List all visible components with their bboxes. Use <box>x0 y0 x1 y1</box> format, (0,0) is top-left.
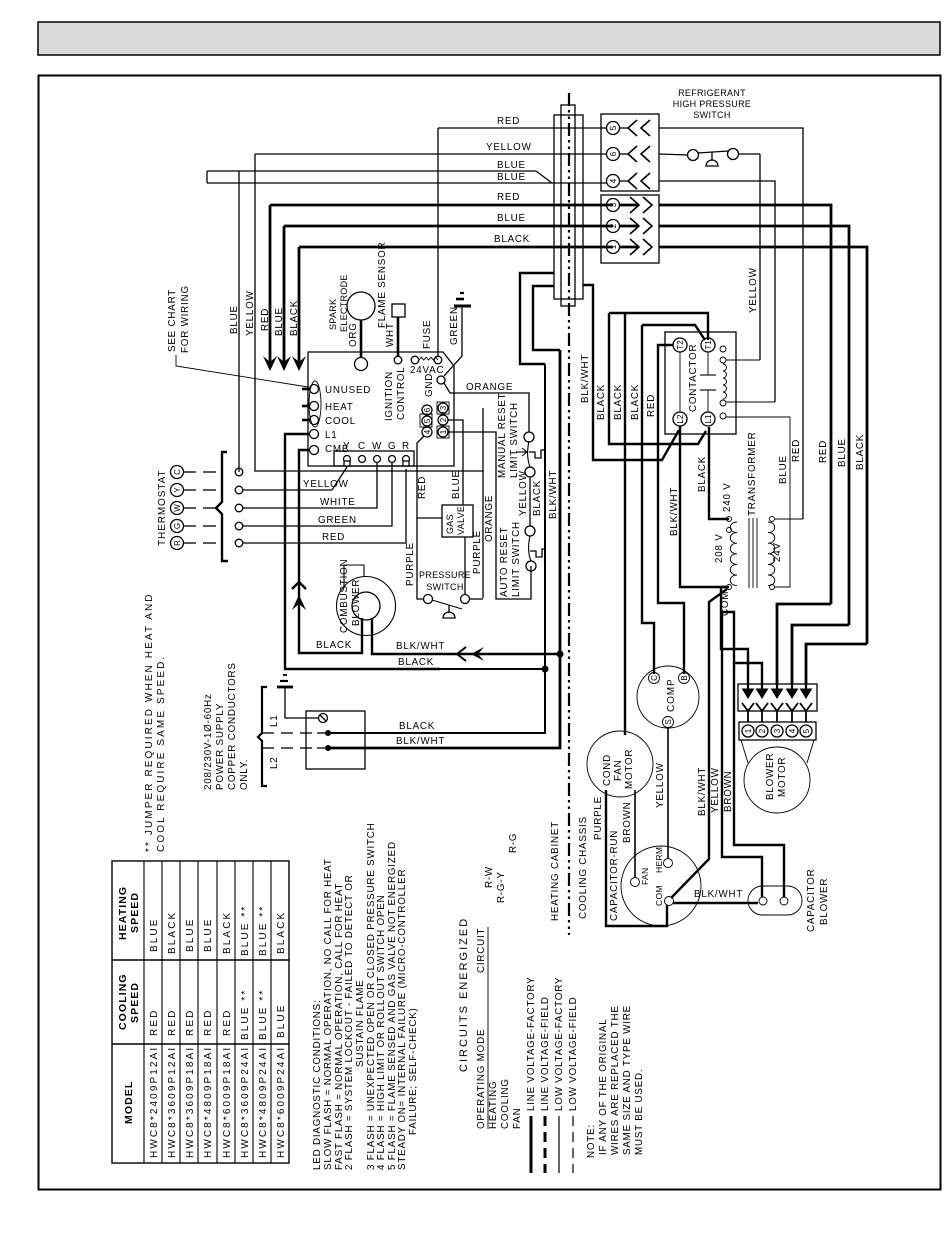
black supply wire <box>328 364 545 733</box>
black arrow down <box>298 247 301 366</box>
black wire junction to trunk <box>440 668 545 670</box>
terminal T2 <box>673 338 687 352</box>
green wire to G <box>243 463 392 526</box>
legend line voltage field <box>544 1116 547 1173</box>
svg-text:R-G-Y: R-G-Y <box>496 871 507 903</box>
svg-text:RED: RED <box>646 394 657 417</box>
svg-text:BLACK: BLACK <box>596 384 607 420</box>
capacitor blower oval <box>748 886 802 915</box>
combustion blower scroll <box>337 577 396 636</box>
svg-text:5: 5 <box>609 125 618 130</box>
svg-text:HWC8*4809P24AI: HWC8*4809P24AI <box>258 1046 269 1158</box>
svg-text:HEATING CABINET: HEATING CABINET <box>550 821 561 921</box>
svg-text:BLUE: BLUE <box>778 455 789 484</box>
terminal L1 <box>701 412 715 426</box>
svg-text:PRESSURE: PRESSURE <box>419 570 471 580</box>
svg-text:GAS: GAS <box>445 514 455 534</box>
svg-text:SLOW FLASH = NORMAL OPERATION,: SLOW FLASH = NORMAL OPERATION, NO CALL F… <box>323 858 334 1170</box>
red wire to R <box>243 469 406 543</box>
svg-text:BLACK: BLACK <box>855 434 866 470</box>
purple wire gas valve area to pressure switch left <box>417 518 424 599</box>
svg-text:REFRIGERANT: REFRIGERANT <box>678 88 746 98</box>
svg-text:COND: COND <box>602 754 613 786</box>
svg-text:BLUE: BLUE <box>276 1003 287 1038</box>
power supply brace <box>258 687 267 786</box>
svg-text:LINE VOLTAGE-FIELD: LINE VOLTAGE-FIELD <box>540 996 551 1111</box>
svg-text:RED: RED <box>167 1009 178 1036</box>
field dashes L2 <box>262 747 274 749</box>
connector block upper (pins 5,6,4) <box>601 114 659 191</box>
L1 screw terminal <box>319 714 328 723</box>
svg-text:WHT: WHT <box>385 322 396 347</box>
svg-text:MODEL: MODEL <box>123 1081 135 1124</box>
svg-text:4: 4 <box>423 429 432 434</box>
coil chain <box>720 346 726 352</box>
svg-text:BLACK: BLACK <box>494 234 530 245</box>
svg-text:BLACK: BLACK <box>222 911 233 954</box>
svg-text:R-W: R-W <box>484 866 495 888</box>
G terminal <box>389 456 396 463</box>
Y C W G R terminal strip <box>334 451 414 466</box>
refrigerant high pressure switch symbol <box>659 154 688 155</box>
L1 wire black from ignition to power area <box>285 434 440 669</box>
svg-text:L1: L1 <box>325 430 338 441</box>
brown wire to capacitor blower right <box>734 663 784 897</box>
field wiring dashes <box>184 471 196 473</box>
svg-text:2: 2 <box>439 417 448 422</box>
cap COM terminal <box>665 897 674 906</box>
gas valve box <box>442 505 473 537</box>
svg-text:B: B <box>680 675 689 680</box>
svg-text:BLK/WHT: BLK/WHT <box>580 354 591 403</box>
field splice chevrons on blk/wht <box>457 647 466 661</box>
thermostat terminal G <box>171 520 184 533</box>
svg-text:SPARK: SPARK <box>328 299 338 330</box>
svg-text:SAME SIZE AND TYPE WIRE: SAME SIZE AND TYPE WIRE <box>622 1005 633 1155</box>
wire RED pin5 <box>438 127 607 129</box>
svg-text:RED: RED <box>185 1009 196 1036</box>
svg-text:YELLOW: YELLOW <box>486 142 532 153</box>
svg-text:CIRCUITS ENERGIZED: CIRCUITS ENERGIZED <box>458 917 470 1072</box>
svg-text:FUSE: FUSE <box>422 320 433 349</box>
wire pin2 BLUE thick trunk <box>659 226 849 625</box>
svg-text:BLUE: BLUE <box>497 172 526 183</box>
thermostat brace <box>216 452 228 561</box>
jumper ellipse around unused/heat/cool <box>309 381 321 427</box>
svg-text:FAN: FAN <box>640 868 650 885</box>
svg-text:GREEN: GREEN <box>318 515 357 526</box>
svg-text:BROWN: BROWN <box>622 801 633 843</box>
svg-text:NOTE:: NOTE: <box>586 1124 597 1158</box>
svg-text:W: W <box>372 441 382 452</box>
svg-text:** JUMPER REQUIRED WHEN HEAT A: ** JUMPER REQUIRED WHEN HEAT AND <box>144 592 155 852</box>
blue wire coil to 24v secondary <box>726 417 790 587</box>
wire pin5 RED right and down to transformer <box>659 128 803 519</box>
svg-text:2 FLASH = SYSTEM LOCKOUT - FAI: 2 FLASH = SYSTEM LOCKOUT - FAILED TO DET… <box>344 875 355 1170</box>
green ground symbol <box>454 305 471 308</box>
orange wire pin1 to auto reset <box>448 432 531 599</box>
svg-text:LOW VOLTAGE-FIELD: LOW VOLTAGE-FIELD <box>568 997 579 1112</box>
thermostat terminal W <box>171 502 184 515</box>
svg-text:HWC8*6009P18AI: HWC8*6009P18AI <box>222 1046 233 1158</box>
blue wire pin4 into coil <box>726 401 775 403</box>
svg-text:BLACK: BLACK <box>316 640 352 651</box>
svg-text:BLUE: BLUE <box>497 213 526 224</box>
white wire to W <box>243 463 377 508</box>
svg-text:24V: 24V <box>772 542 783 562</box>
svg-text:COOL REQUIRE SAME SPEED.: COOL REQUIRE SAME SPEED. <box>156 655 167 852</box>
svg-text:BLACK: BLACK <box>276 911 287 954</box>
svg-text:C: C <box>650 675 659 681</box>
svg-text:BLUE: BLUE <box>837 438 848 467</box>
blk/wht wire from blower right to trunk <box>372 618 560 654</box>
wire pin1 BLACK thick trunk <box>659 247 867 644</box>
svg-text:FAN: FAN <box>613 760 624 781</box>
svg-text:BLUE **: BLUE ** <box>258 989 269 1040</box>
red arrow down <box>269 205 272 366</box>
transformer secondary winding <box>768 522 775 586</box>
purple wire gas valve bottom to pressure switch right <box>464 537 466 595</box>
see chart leader line <box>176 355 308 387</box>
auto reset limit switch <box>525 526 535 536</box>
svg-text:BLK/WHT: BLK/WHT <box>548 470 559 519</box>
svg-text:C: C <box>358 441 366 452</box>
blue arrow down <box>283 226 286 366</box>
right connector pins 6 5 4 <box>420 414 432 427</box>
wire BLUE lower <box>207 182 607 184</box>
svg-text:BLUE: BLUE <box>185 917 196 952</box>
comp terminal C <box>649 673 660 684</box>
ground wire to L1 screw <box>285 687 318 718</box>
svg-text:BLK/WHT: BLK/WHT <box>396 641 445 652</box>
bulkhead plug outer rect <box>554 115 583 299</box>
right connector pins 3 2 1 <box>437 402 449 414</box>
svg-text:YELLOW: YELLOW <box>303 479 349 490</box>
svg-text:PURPLE: PURPLE <box>593 796 604 840</box>
wire blue down to thermostat C <box>238 171 240 472</box>
svg-text:T1: T1 <box>704 340 713 350</box>
comp terminal R <box>679 673 690 684</box>
svg-text:CIRCUIT: CIRCUIT <box>476 928 487 973</box>
bulkhead plug inner rect <box>561 105 575 306</box>
ground symbol <box>277 686 293 689</box>
unit terminal G <box>235 522 243 530</box>
wire RED pin3 thick <box>270 204 613 207</box>
svg-text:S: S <box>664 719 673 724</box>
svg-text:W: W <box>173 504 182 512</box>
svg-text:TRANSFORMER: TRANSFORMER <box>747 432 758 516</box>
up arrow on CMB wire <box>292 595 306 610</box>
transformer core <box>748 518 750 588</box>
svg-text:RED: RED <box>203 1009 214 1036</box>
svg-text:L1: L1 <box>704 414 713 423</box>
svg-text:RED: RED <box>818 440 829 463</box>
svg-text:YELLOW: YELLOW <box>710 767 721 813</box>
yellow wire S to herm <box>667 728 669 858</box>
svg-text:WIRES ARE REPLACED THE: WIRES ARE REPLACED THE <box>610 1005 621 1155</box>
svg-text:ONLY.: ONLY. <box>239 759 250 790</box>
svg-text:BLUE: BLUE <box>203 917 214 952</box>
svg-text:HWC8*2409P12AI: HWC8*2409P12AI <box>149 1046 160 1158</box>
svg-text:COM: COM <box>654 885 664 906</box>
ORG wire <box>360 320 363 357</box>
blkwht L2 to com <box>680 426 727 587</box>
terminal T1 <box>701 338 715 352</box>
model speed table frame <box>112 861 289 1163</box>
svg-text:5: 5 <box>802 728 811 733</box>
thermostat terminal R <box>171 537 184 550</box>
ORG terminal <box>355 358 368 371</box>
svg-text:LOW VOLTAGE-FACTORY: LOW VOLTAGE-FACTORY <box>554 977 565 1111</box>
wire BLUE upper <box>207 170 536 172</box>
receptacle chevrons <box>742 703 754 722</box>
svg-text:HWC8*6009P24AI: HWC8*6009P24AI <box>276 1046 287 1158</box>
compressor circle <box>637 666 699 728</box>
svg-text:R: R <box>402 441 410 452</box>
secondary terminals <box>770 517 775 522</box>
orange wire gnd to manual reset switch <box>444 383 529 432</box>
chevrons pins 5,6,4 pointing left <box>628 120 652 255</box>
svg-text:HWC8*3609P12AI: HWC8*3609P12AI <box>167 1046 178 1158</box>
svg-text:PURPLE: PURPLE <box>472 530 483 574</box>
yellow wire to Y quick connect <box>243 467 347 490</box>
plug right path to L2 blkwht <box>583 285 679 460</box>
svg-text:3: 3 <box>773 728 782 733</box>
svg-text:Y: Y <box>343 441 350 452</box>
wire yellow down then right to pin3 column <box>255 154 483 471</box>
unit terminal C <box>235 468 243 476</box>
table row lines <box>112 959 289 961</box>
svg-text:4: 4 <box>788 728 797 733</box>
yellow wire between limit switches <box>529 477 531 526</box>
pin 2 <box>607 220 620 233</box>
svg-text:BLACK: BLACK <box>630 384 641 420</box>
svg-text:RED: RED <box>791 439 802 462</box>
WHT terminal <box>394 356 402 364</box>
red wire secondary top <box>775 518 803 520</box>
field dashes L1 <box>262 732 274 734</box>
svg-text:ORANGE: ORANGE <box>466 382 513 393</box>
com wire diagonal down <box>671 589 727 898</box>
svg-text:COOLING: COOLING <box>117 973 129 1030</box>
svg-text:BROWN: BROWN <box>723 770 734 812</box>
C terminal <box>359 456 366 463</box>
table model row lines <box>161 861 163 1163</box>
svg-text:BLK/WHT: BLK/WHT <box>697 767 708 816</box>
svg-text:SPEED: SPEED <box>129 982 141 1023</box>
svg-text:2: 2 <box>758 728 767 733</box>
svg-text:COOLING CHASSIS: COOLING CHASSIS <box>578 816 589 919</box>
cap FAN terminal <box>631 878 640 887</box>
svg-text:CONTACTOR: CONTACTOR <box>688 344 699 412</box>
svg-text:HERM: HERM <box>654 847 664 873</box>
svg-text:2: 2 <box>609 223 618 228</box>
svg-text:THERMOSTAT: THERMOSTAT <box>157 470 168 546</box>
yellow wire into coil <box>726 359 760 361</box>
svg-text:208/230V-1Ø-60Hz: 208/230V-1Ø-60Hz <box>203 693 214 790</box>
svg-text:BLUE **: BLUE ** <box>240 905 251 956</box>
terminal L2 <box>673 412 687 426</box>
yellow wire to capacitor blower left <box>722 612 762 897</box>
table column line header <box>143 861 145 1163</box>
brown branch to blower terminal 2 <box>721 612 762 684</box>
svg-text:1: 1 <box>609 244 618 249</box>
blower plug housing <box>738 684 817 711</box>
svg-text:UNUSED: UNUSED <box>325 385 371 396</box>
svg-text:T2: T2 <box>676 340 685 350</box>
svg-text:HEATING: HEATING <box>117 886 129 940</box>
svg-text:OPERATING MODE: OPERATING MODE <box>476 1029 487 1129</box>
fuse <box>411 356 419 364</box>
svg-text:BLACK: BLACK <box>532 480 543 516</box>
green wire to gnd <box>444 306 462 376</box>
svg-text:HEATING: HEATING <box>488 1081 499 1129</box>
svg-text:L2: L2 <box>676 414 685 423</box>
trunk black 4 to T1 and comp C <box>642 325 705 340</box>
pin 5 <box>607 122 620 135</box>
unit terminal R <box>235 539 243 547</box>
legend line voltage factory <box>530 1116 533 1173</box>
power terminal block <box>306 711 365 769</box>
yellow wire down to contactor coil <box>759 154 761 360</box>
chassis divider dash-dot line <box>568 93 570 935</box>
manual reset limit switch <box>524 432 534 442</box>
cond fan motor <box>587 731 653 797</box>
svg-text:LIMIT SWITCH: LIMIT SWITCH <box>509 402 520 478</box>
svg-text:SWITCH: SWITCH <box>426 582 463 592</box>
spark electrode <box>347 292 375 320</box>
svg-text:BLACK: BLACK <box>613 384 624 420</box>
svg-text:BLUE: BLUE <box>451 470 462 499</box>
svg-text:COPPER CONDUCTORS: COPPER CONDUCTORS <box>227 662 238 790</box>
svg-text:MOTOR: MOTOR <box>624 749 635 789</box>
svg-text:3: 3 <box>439 405 448 410</box>
svg-text:RED: RED <box>497 116 520 127</box>
plug bottom path B to blk/wht trunk <box>533 286 560 350</box>
thermostat terminal C <box>171 466 184 479</box>
svg-text:AUTO RESET: AUTO RESET <box>499 527 510 597</box>
svg-text:COMP: COMP <box>666 678 677 712</box>
svg-text:BLOWER: BLOWER <box>765 753 776 800</box>
svg-text:MOTOR: MOTOR <box>777 757 788 797</box>
svg-text:YELLOW: YELLOW <box>518 470 529 516</box>
wire pin3 column down <box>482 471 484 598</box>
left terminals UNUSED HEAT COOL L1 CMB <box>310 385 319 394</box>
svg-text:POWER SUPPLY: POWER SUPPLY <box>215 703 226 790</box>
svg-text:BLUE: BLUE <box>497 160 526 171</box>
wire YELLOW pin6 <box>255 153 607 155</box>
blue wire pin2 to gas valve <box>448 420 463 505</box>
svg-text:SEE CHART: SEE CHART <box>167 289 178 352</box>
svg-text:RED: RED <box>222 1009 233 1036</box>
svg-text:L2: L2 <box>269 757 280 770</box>
svg-text:FAILURE; SELF-CHECK): FAILURE; SELF-CHECK) <box>408 1007 419 1135</box>
svg-text:G: G <box>173 523 182 529</box>
svg-text:BLUE **: BLUE ** <box>258 905 269 956</box>
svg-text:SWITCH: SWITCH <box>693 110 730 120</box>
svg-text:1: 1 <box>744 728 753 733</box>
pin 4 <box>607 175 620 188</box>
svg-text:COOL: COOL <box>325 416 356 427</box>
legend low voltage factory <box>558 1116 560 1173</box>
svg-text:L1: L1 <box>269 715 280 728</box>
purple wire cond fan to cap COM <box>606 790 667 926</box>
unit terminal W <box>235 504 243 512</box>
svg-text:HWC8*3609P18AI: HWC8*3609P18AI <box>185 1046 196 1158</box>
svg-text:HIGH PRESSURE: HIGH PRESSURE <box>673 99 751 109</box>
unit terminal Y <box>235 486 243 494</box>
R quick connect <box>403 456 410 463</box>
contactor box <box>665 332 736 434</box>
svg-text:LED DIAGNOSTIC CONDITIONS:: LED DIAGNOSTIC CONDITIONS: <box>312 1000 323 1171</box>
flame sensor <box>392 304 405 317</box>
wire from switch to yellow trunk <box>738 153 760 155</box>
transformer primary terminal 240V <box>727 517 732 522</box>
svg-text:LINE VOLTAGE-FACTORY: LINE VOLTAGE-FACTORY <box>526 977 537 1112</box>
svg-text:CAPACITOR-RUN: CAPACITOR-RUN <box>609 830 620 921</box>
transformer COM terminal <box>727 585 732 590</box>
T2-L2 internal line <box>679 352 681 412</box>
transformer primary winding <box>730 522 737 586</box>
pin 6 <box>607 148 620 161</box>
svg-text:FLAME SENSOR: FLAME SENSOR <box>377 242 388 328</box>
svg-text:G: G <box>388 441 396 452</box>
svg-text:4: 4 <box>609 178 618 183</box>
transformer primary terminal 208V <box>727 528 732 533</box>
connector block lower (pins 3,2,1) <box>601 195 659 263</box>
com branch to blower terminal 1 <box>721 587 748 684</box>
blower motor <box>741 740 748 763</box>
svg-text:208 V: 208 V <box>714 533 725 563</box>
svg-text:PURPLE: PURPLE <box>405 542 416 586</box>
comp terminal S <box>663 717 674 728</box>
svg-text:BLUE **: BLUE ** <box>240 989 251 1040</box>
svg-text:RED: RED <box>417 476 428 499</box>
svg-text:3: 3 <box>609 202 618 207</box>
svg-text:HEAT: HEAT <box>325 402 354 413</box>
svg-text:HWC8*4809P18AI: HWC8*4809P18AI <box>203 1046 214 1158</box>
svg-text:BLACK: BLACK <box>398 657 434 668</box>
svg-text:ORANGE: ORANGE <box>484 495 495 542</box>
svg-text:RED: RED <box>322 532 345 543</box>
svg-text:COMBUSTION: COMBUSTION <box>339 559 350 633</box>
wire BLACK pin1 thick <box>299 246 613 249</box>
blk/wht supply wire <box>328 350 560 748</box>
WHT wire <box>397 317 400 356</box>
pin 3 <box>607 199 620 212</box>
trunk black 2 to L1 net <box>609 313 706 444</box>
W terminal <box>374 456 381 463</box>
wire pin3 RED thick right/down trunk <box>659 205 831 604</box>
svg-text:BLACK: BLACK <box>399 721 435 732</box>
black trunk to blower terminal 5 <box>806 644 867 684</box>
svg-text:4 FLASH = HIGH LIMIT OR ROLLOU: 4 FLASH = HIGH LIMIT OR ROLLOUT SWITCH O… <box>376 895 387 1170</box>
ignition control box <box>308 352 454 466</box>
svg-text:ORG: ORG <box>348 322 359 347</box>
capacitor run circle <box>621 846 701 926</box>
plug bottom path A to black trunk <box>520 273 554 364</box>
svg-text:WHITE: WHITE <box>320 497 356 508</box>
svg-text:LIMIT SWITCH: LIMIT SWITCH <box>511 521 522 597</box>
svg-text:HWC8*3609P24AI: HWC8*3609P24AI <box>240 1046 251 1158</box>
trunk black 3 to cond fan motor <box>624 313 626 735</box>
svg-text:BLK/WHT: BLK/WHT <box>669 487 680 536</box>
GND terminal <box>437 376 445 384</box>
svg-text:6: 6 <box>423 407 432 412</box>
svg-text:BLUE: BLUE <box>149 917 160 952</box>
svg-text:1: 1 <box>439 429 448 434</box>
wire BLUE pin2 thick <box>284 225 613 228</box>
